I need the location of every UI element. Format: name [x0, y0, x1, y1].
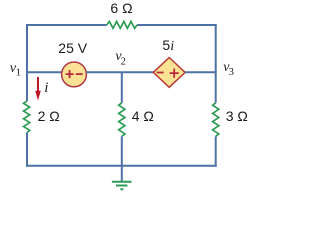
wire middle v1 to 25V source — [26, 71, 62, 73]
minus sign in 25V source — [76, 73, 83, 75]
plus sign in 25V source — [66, 70, 74, 78]
wire top-right segment — [137, 24, 216, 26]
current arrow i — [37, 77, 39, 93]
wire left vertical lower — [26, 133, 28, 167]
wire left vertical upper — [26, 24, 28, 101]
wire 5i source to v3 — [185, 71, 217, 73]
svg-text:3: 3 — [229, 67, 234, 78]
svg-text:1: 1 — [16, 68, 21, 79]
resistor 3 ohm zigzag — [213, 103, 219, 137]
svg-text:25 V: 25 V — [58, 40, 87, 56]
wire 25V source to v2 to 5i source — [86, 71, 153, 73]
svg-text:4 Ω: 4 Ω — [132, 108, 154, 124]
dependent source 5i diamond — [153, 58, 185, 88]
wire middle branch v2 down to 4 ohm — [121, 72, 123, 103]
svg-text:i: i — [44, 80, 48, 96]
minus sign in 5i source — [157, 72, 164, 74]
resistor 6 ohm zigzag — [107, 22, 137, 29]
plus sign in 5i source — [170, 69, 179, 78]
wire right vertical upper — [215, 24, 217, 103]
svg-text:2: 2 — [121, 56, 126, 67]
wire right vertical lower — [215, 136, 217, 166]
resistor 2 ohm zigzag — [24, 101, 30, 133]
ground — [112, 182, 132, 190]
svg-text:5i: 5i — [162, 37, 174, 54]
svg-text:6 Ω: 6 Ω — [110, 0, 132, 16]
wire middle branch below 4 ohm to ground — [121, 136, 123, 181]
wire top-left segment — [26, 24, 107, 26]
voltage source 25V circle — [62, 62, 87, 87]
resistor 4 ohm zigzag — [119, 103, 125, 137]
svg-text:3 Ω: 3 Ω — [226, 108, 248, 124]
svg-text:2 Ω: 2 Ω — [38, 108, 60, 124]
wire bottom — [26, 165, 217, 167]
